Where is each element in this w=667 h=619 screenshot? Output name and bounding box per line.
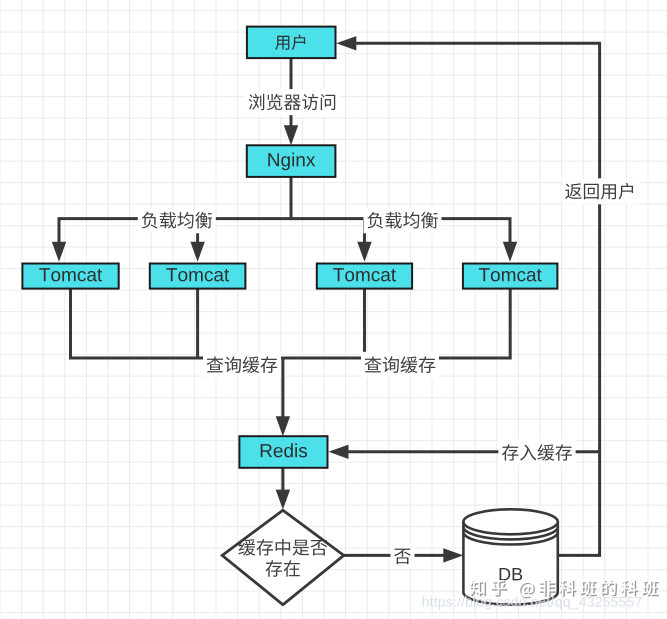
wire Redis to decision diamond bbox=[276, 468, 290, 510]
wire Tomcat1..4 bottoms to query-cache bus bbox=[71, 289, 511, 358]
box Tomcat 3 bbox=[317, 264, 412, 289]
wire Nginx stem down to branch bbox=[290, 177, 293, 220]
decision diamond 缓存中是否存在 bbox=[222, 510, 344, 605]
box 用户 (user) bbox=[247, 27, 336, 58]
label 负载均衡 left (load balance) bbox=[138, 207, 216, 233]
wire Tomcat3 down segment bbox=[363, 289, 366, 358]
wire 用户 to Nginx (vertical) bbox=[284, 58, 298, 145]
wire branch drop to Tomcat3 bbox=[357, 219, 371, 262]
label 否 (no) bbox=[391, 543, 415, 569]
box Tomcat 2 bbox=[150, 264, 246, 289]
label 负载均衡 right (load balance) bbox=[364, 207, 442, 233]
wire query-cache bus drop to Redis bbox=[276, 358, 290, 436]
diamond text line2 存在 bbox=[265, 560, 299, 577]
wire load-balance branch with left/right drops bbox=[52, 219, 517, 262]
watermark csdn URL text bbox=[422, 595, 642, 609]
database cylinder DB bbox=[463, 509, 557, 604]
wire Tomcat2 down segment bbox=[196, 289, 199, 358]
wire store-cache from right trunk to Redis bbox=[329, 445, 600, 459]
box Nginx bbox=[247, 145, 336, 177]
label 查询缓存 left (query cache) bbox=[203, 352, 281, 378]
label 浏览器访问 (browser access) bbox=[245, 89, 340, 115]
box Tomcat 4 bbox=[463, 264, 558, 289]
wire branch drop to Tomcat2 bbox=[190, 219, 204, 262]
label 返回用户 (return to user) bbox=[562, 178, 639, 204]
wire DB up right trunk to 用户 (return path) bbox=[336, 36, 599, 555]
label 查询缓存 right (query cache) bbox=[361, 352, 439, 378]
watermark 知乎 @非科班的科班 bbox=[469, 579, 658, 598]
box Redis bbox=[239, 436, 327, 468]
wire diamond to DB bbox=[344, 548, 464, 562]
diamond text line1 缓存中是否 bbox=[238, 539, 327, 556]
box Tomcat 1 bbox=[22, 264, 118, 289]
label 存入缓存 (store into cache) bbox=[498, 440, 575, 466]
